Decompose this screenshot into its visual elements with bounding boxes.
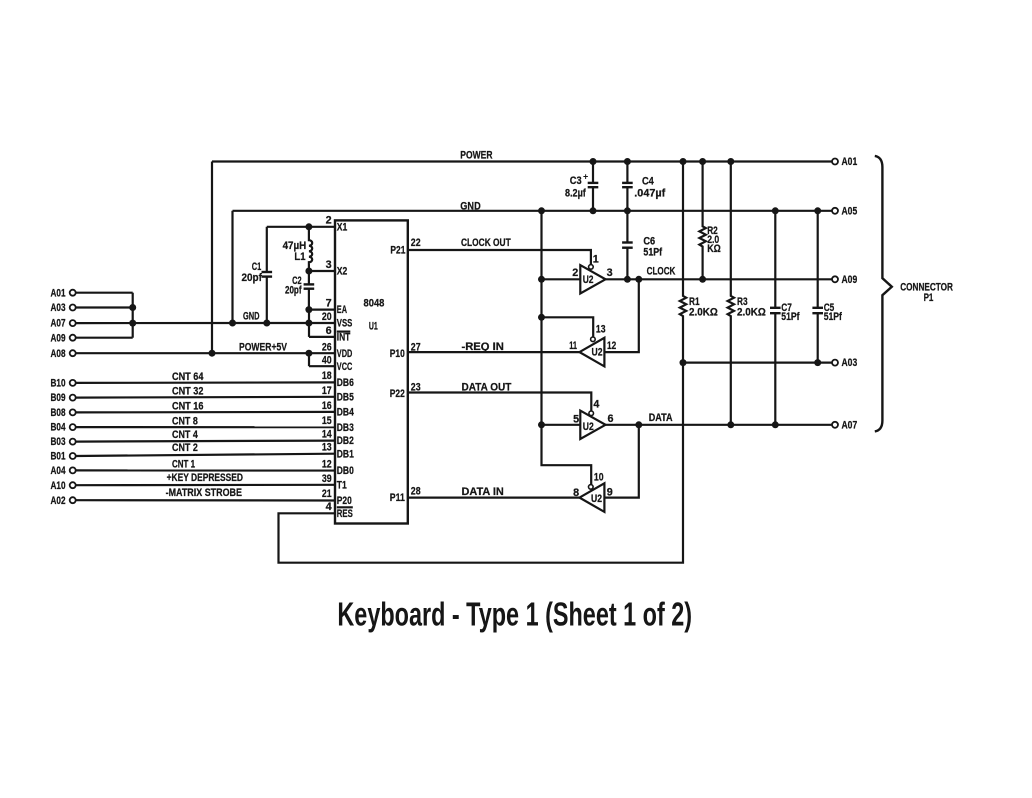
resistor R3 [728,162,767,425]
wire X2 row [309,270,335,272]
svg-text:B04: B04 [51,422,66,434]
svg-text:L1: L1 [294,251,305,263]
svg-text:18: 18 [322,370,332,382]
wire P22 DATA OUT row [408,393,592,412]
svg-text:+: + [583,172,588,182]
wire P11 DATA IN row [408,497,580,499]
junction C3-GND [590,207,597,214]
svg-text:A05: A05 [842,205,858,217]
wire B08 CNT16 row [76,411,335,414]
capacitor C7 [770,211,800,425]
svg-text:CLOCK: CLOCK [647,266,676,278]
svg-text:4: 4 [593,399,599,411]
terminal B03 left [70,439,76,445]
svg-text:21: 21 [322,488,332,500]
svg-text:T1: T1 [337,479,347,491]
junction C7-GND [772,207,779,214]
wire pin12 output up to CLOCK [604,279,638,352]
buffer U2d pins 10,8,9 [573,472,613,512]
wire B10 CNT64 row [76,381,335,384]
junction R2-CLOCK [699,276,706,283]
svg-text:+KEY DEPRESSED: +KEY DEPRESSED [167,472,244,484]
terminal A03 right [832,360,838,366]
svg-text:DB2: DB2 [337,435,354,447]
svg-text:8048: 8048 [364,298,385,310]
svg-text:10: 10 [594,472,604,484]
terminal B10 left [70,380,76,386]
svg-text:A03: A03 [51,302,66,314]
svg-text:U1: U1 [369,320,378,332]
ic U1 8048 box [335,220,408,523]
terminal A02 left [70,497,76,503]
svg-text:DB0: DB0 [337,465,354,477]
svg-text:P11: P11 [390,492,405,504]
svg-text:VSS: VSS [337,318,353,330]
wire POWER bus top [212,160,832,162]
svg-text:7: 7 [326,298,332,310]
svg-text:11: 11 [569,340,577,352]
junction VSS row [305,320,312,327]
svg-text:DB5: DB5 [337,391,354,403]
svg-text:B10: B10 [51,378,66,390]
wire DATA row buffer out to A07 [606,424,833,426]
svg-text:P22: P22 [390,388,405,400]
svg-text:12: 12 [607,340,616,352]
svg-text:C4: C4 [642,176,654,188]
junction L1-X2 [305,268,312,275]
wire A03 row [683,362,832,364]
wire pin2 input [542,278,581,280]
pin names U1 right [390,244,406,504]
junction GND-VSSrow [229,320,236,327]
wire B01 CNT2 row [76,454,335,456]
wire EA-VSS-INT vertical [308,310,310,337]
wire pin9 output up to DATA [604,425,638,498]
wire P10 REQ IN row [408,351,580,353]
junction C5-GND [814,207,821,214]
svg-text:2.0KΩ: 2.0KΩ [737,307,766,319]
wire A01 stub [76,292,133,294]
svg-text:22: 22 [411,237,421,249]
junction R3-DATA [727,421,734,428]
svg-text:8.2µf: 8.2µf [565,188,586,200]
junction bus-A03 [129,304,136,311]
svg-text:1: 1 [593,253,599,265]
svg-text:DB3: DB3 [337,422,354,434]
svg-text:12: 12 [322,458,332,470]
junction C4-POWER [624,158,631,165]
svg-text:P21: P21 [390,244,405,256]
wire INT row [309,336,335,338]
svg-text:40: 40 [322,354,332,366]
wire A04 CNT1 row [76,469,335,471]
svg-text:A01: A01 [51,287,66,299]
svg-text:B09: B09 [51,392,66,404]
terminal A04 left [70,467,76,473]
svg-text:POWER: POWER [460,150,492,162]
junction gnd-vert pin13 [538,314,545,321]
svg-text:20: 20 [322,311,332,323]
svg-text:A07: A07 [842,420,858,432]
svg-text:B03: B03 [51,436,66,448]
buffer U2b pins 13,11,12 [569,323,616,366]
wire pin13 [542,317,594,337]
svg-text:CNT 2: CNT 2 [172,442,198,454]
svg-text:GND: GND [243,310,260,322]
svg-text:P20: P20 [337,495,352,507]
terminal A01 right [832,159,838,165]
wire A07 GND row to U1 VSS [76,322,335,324]
buffer U2a pins 1,2,3 [572,253,612,293]
terminal A08 left [70,350,76,356]
wire X1 row [267,226,335,228]
svg-text:POWER+5V: POWER+5V [239,341,287,353]
svg-text:X2: X2 [337,266,348,278]
svg-text:A09: A09 [842,274,858,286]
capacitor C4 [622,162,666,211]
capacitor C5 [812,211,842,363]
connector P1 brace [875,156,953,432]
svg-text:2.0KΩ: 2.0KΩ [689,307,718,319]
svg-text:KΩ: KΩ [707,243,721,255]
junction R1-A03 [680,359,687,366]
svg-text:-MATRIX STROBE: -MATRIX STROBE [166,487,242,499]
junction C3-POWER [590,158,597,165]
wire B04 CNT8 row [76,426,335,428]
terminal B09 left [70,395,76,401]
junction C5-A03 [814,359,821,366]
wire gnd-input vertical to buffers [542,211,592,485]
svg-text:CNT 64: CNT 64 [172,371,203,383]
wire A03 stub [76,306,133,308]
svg-text:DB4: DB4 [337,407,354,419]
svg-text:14: 14 [322,429,332,441]
wire VDD-VCC vertical [308,353,310,366]
svg-text:CNT 1: CNT 1 [172,458,195,470]
svg-text:B01: B01 [51,451,66,463]
svg-text:26: 26 [322,341,332,353]
junction gnd-vert pin5 [538,421,545,428]
junction gnd-vert pin2 [538,276,545,283]
terminal A07 right [832,422,838,428]
wire CLOCK row buffer out to A09 [606,278,833,280]
svg-text:-REQ IN: -REQ IN [462,341,504,353]
svg-text:15: 15 [322,415,332,427]
terminal B08 left [70,409,76,415]
svg-text:P1: P1 [924,292,934,304]
junction C2-EA [305,306,312,313]
junction C7-DATA [772,421,779,428]
wire POWER left vertical [211,162,213,354]
svg-text:51Pf: 51Pf [643,246,662,258]
wire A09 stub [76,337,133,339]
svg-text:51Pf: 51Pf [781,311,800,323]
svg-text:13: 13 [322,442,332,454]
svg-text:CLOCK OUT: CLOCK OUT [461,237,511,249]
svg-text:VCC: VCC [337,361,353,373]
capacitor C6 [622,211,662,279]
svg-text:20pf: 20pf [285,285,302,297]
resistor R2 [699,162,721,280]
junction C4-GND [624,207,631,214]
capacitor C2 [285,271,314,310]
svg-text:A09: A09 [51,332,66,344]
svg-text:C3: C3 [570,175,582,187]
wire A10 KEY row [76,484,335,487]
junction bus-A07 [129,320,136,327]
wire GND bus top [233,210,833,212]
svg-text:B08: B08 [51,407,66,419]
terminal A09 left [70,335,76,341]
svg-text:DATA IN: DATA IN [462,486,504,498]
terminal A03 left [70,305,76,311]
capacitor C3 [565,162,598,211]
svg-text:51Pf: 51Pf [824,311,843,323]
svg-text:DB1: DB1 [337,448,354,460]
junction R3-POWER [727,158,734,165]
svg-text:28: 28 [411,486,421,498]
svg-text:VDD: VDD [337,348,353,360]
junction C6-CLOCK [624,276,631,283]
wire A02 STROBE row [76,499,335,501]
terminal A10 left [70,482,76,488]
wire pin5 input [542,424,581,426]
pin names U1 left [337,221,354,520]
wire GND left vertical [231,211,233,323]
svg-text:2: 2 [326,215,332,227]
svg-text:3: 3 [326,259,332,271]
svg-text:CNT 16: CNT 16 [172,400,203,412]
svg-text:DATA: DATA [649,412,673,424]
inductor L1 [283,227,313,271]
svg-text:39: 39 [322,473,332,485]
svg-text:2: 2 [572,267,578,279]
svg-text:U2: U2 [591,493,602,505]
svg-text:20pf: 20pf [242,272,263,284]
svg-text:A07: A07 [51,318,66,330]
svg-text:DB6: DB6 [337,377,354,389]
svg-text:A02: A02 [51,495,66,507]
svg-text:U2: U2 [592,347,603,359]
svg-text:17: 17 [322,385,332,397]
buffer U2c pins 4,5,6 [573,399,613,439]
svg-text:Keyboard - Type 1 (Sheet 1 of: Keyboard - Type 1 (Sheet 1 of 2) [337,596,692,633]
svg-text:8: 8 [573,487,579,499]
svg-text:16: 16 [322,400,332,412]
svg-text:CNT 4: CNT 4 [172,429,198,441]
svg-text:U2: U2 [583,421,594,433]
svg-text:13: 13 [596,323,606,335]
wire VCC row [309,365,335,367]
svg-text:A10: A10 [51,480,66,492]
svg-text:RES: RES [337,508,353,520]
svg-text:.047µf: .047µf [634,188,665,200]
wire B09 CNT32 row [76,396,335,399]
svg-text:P10: P10 [390,348,405,360]
junction R2-POWER [699,158,706,165]
junction gnd-vert top [538,207,545,214]
svg-text:INT: INT [337,332,351,344]
svg-text:CNT 32: CNT 32 [172,385,203,397]
terminal A07 left [70,320,76,326]
junction pin12vert-CLOCK [635,276,642,283]
svg-text:6: 6 [326,325,332,337]
junction POWER-A08 [209,350,216,357]
junction pin9vert-DATA [635,421,642,428]
svg-text:4: 4 [326,501,332,513]
wire EA row [309,309,335,311]
svg-text:X1: X1 [337,221,348,233]
terminal A09 right [832,276,838,282]
svg-text:6: 6 [608,413,614,425]
svg-text:A03: A03 [842,357,858,369]
svg-text:A08: A08 [51,348,66,360]
junction VDD row [305,350,312,357]
svg-text:GND: GND [460,200,481,212]
wire P21 CLOCK OUT row [408,250,591,265]
wire left bus vertical A01-A09 [132,293,134,338]
junction C1-VSS [263,320,270,327]
junction R1-POWER [680,158,687,165]
svg-text:EA: EA [337,304,347,316]
wire B03 CNT4 row [76,441,335,442]
resistor R1 and RES pull line [279,162,719,563]
terminal B01 left [70,453,76,459]
svg-text:3: 3 [607,267,613,279]
capacitor C1 [242,227,273,323]
pin numbers U1 right [411,237,421,498]
junction L1-X1 [305,223,312,230]
pin numbers U1 left [322,215,332,514]
svg-text:A01: A01 [842,156,858,168]
svg-text:U2: U2 [583,274,594,286]
terminal B04 left [70,424,76,430]
svg-text:CNT 8: CNT 8 [172,416,198,428]
wire A08 POWER+5V row to U1 VDD [76,352,335,354]
svg-text:A04: A04 [51,465,66,477]
svg-text:DATA OUT: DATA OUT [462,382,512,394]
terminal A01 left [70,290,76,296]
terminal A05 right [832,208,838,214]
